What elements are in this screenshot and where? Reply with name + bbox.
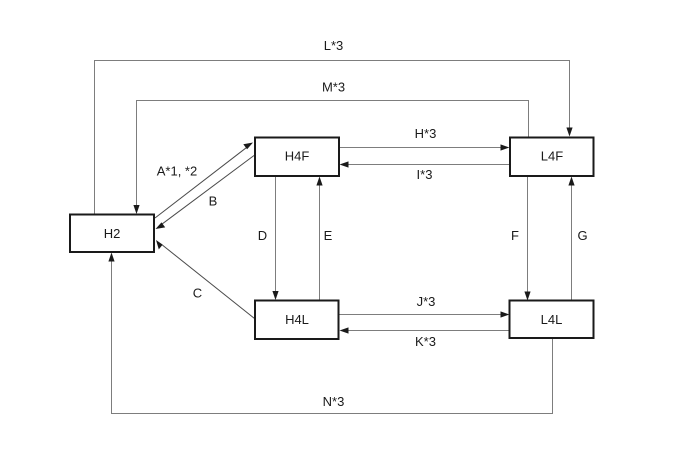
- arrowhead into L4L left (J*3): [501, 311, 510, 317]
- wire L*3 (H2 top to L4F top): [95, 61, 570, 215]
- arrowhead into L4F top (L*3): [566, 128, 572, 137]
- arrowhead into L4L top (F): [524, 292, 530, 301]
- wire C (H4L left to H2 right, diagonal): [162, 245, 254, 319]
- arrowhead into H2 bottom (N*3): [108, 253, 114, 262]
- wire F (L4F bottom to L4L top): [527, 176, 529, 293]
- svg-text:J*3: J*3: [417, 294, 436, 309]
- svg-text:F: F: [511, 228, 519, 243]
- arrowhead into H4F right (I*3): [340, 161, 349, 167]
- arrowhead into L4F bottom (G): [568, 177, 574, 186]
- svg-text:M*3: M*3: [322, 80, 345, 95]
- box L4L: [510, 301, 594, 339]
- arrowhead into H2 right (C): [156, 240, 163, 249]
- svg-text:B: B: [209, 194, 218, 209]
- wire N*3 (L4L bottom to H2 bottom): [112, 260, 553, 414]
- arrowhead into H4F bottom (E): [316, 177, 322, 186]
- arrowhead into H4F left (A): [243, 143, 253, 150]
- wire J*3 (H4L right to L4L left): [339, 314, 502, 316]
- wire D (H4F bottom to H4L top): [275, 176, 277, 293]
- arrowhead into H2 top (M*3): [133, 205, 139, 214]
- box H2: [70, 215, 154, 253]
- svg-text:H2: H2: [104, 226, 121, 241]
- svg-text:C: C: [193, 286, 202, 301]
- box L4F: [510, 138, 594, 177]
- arrowhead into L4F left (H*3): [501, 144, 510, 150]
- svg-text:E: E: [324, 228, 333, 243]
- svg-text:D: D: [258, 228, 267, 243]
- svg-text:L4F: L4F: [541, 149, 563, 164]
- box H4L: [255, 301, 339, 340]
- box H4F: [255, 138, 339, 177]
- svg-text:H4L: H4L: [285, 312, 309, 327]
- arrowhead into H4L top (D): [272, 291, 278, 300]
- svg-text:H*3: H*3: [415, 126, 437, 141]
- svg-text:H4F: H4F: [285, 149, 310, 164]
- wire E (H4L top to H4F bottom): [319, 184, 321, 301]
- wire G (L4L top to L4F bottom): [571, 184, 573, 301]
- arrowhead into H4L right (K*3): [340, 327, 349, 333]
- svg-text:L4L: L4L: [541, 312, 563, 327]
- svg-text:A*1, *2: A*1, *2: [157, 164, 197, 179]
- svg-text:L*3: L*3: [324, 38, 344, 53]
- arrowhead into H2 right (B): [156, 222, 166, 229]
- svg-text:I*3: I*3: [417, 167, 433, 182]
- wire H*3 (H4F right to L4F left): [339, 147, 502, 149]
- wire M*3 (L4F top to H2 top): [137, 101, 529, 208]
- wire B (H4F left to H2 right, diagonal): [162, 156, 254, 225]
- wire K*3 (L4L left to H4L right): [347, 330, 510, 332]
- wire I*3 (L4F left to H4F right): [347, 164, 510, 166]
- wire A (H2 top-right to H4F left, diagonal): [155, 147, 247, 218]
- svg-text:G: G: [577, 228, 587, 243]
- svg-text:N*3: N*3: [323, 394, 345, 409]
- svg-text:K*3: K*3: [415, 334, 436, 349]
